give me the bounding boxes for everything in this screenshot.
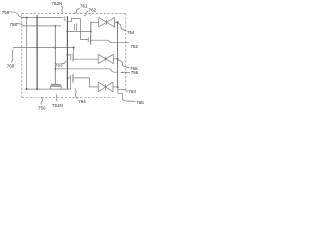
svg-text:759: 759 xyxy=(2,10,10,15)
wire vertical column V2 xyxy=(36,15,38,89)
transistor Q2 channel bar xyxy=(90,36,92,45)
selector cell D3 right triangle xyxy=(106,82,113,92)
transistor Q3 channel bar xyxy=(72,53,74,61)
node dot bitline mid xyxy=(117,58,119,60)
transistor Q4 gate bar xyxy=(70,75,72,82)
selector cell D1 center bar xyxy=(106,20,108,25)
svg-text:758: 758 xyxy=(10,22,18,27)
selector cell D2 center bar xyxy=(105,56,107,61)
svg-text:751N: 751N xyxy=(52,103,63,108)
svg-text:761: 761 xyxy=(80,4,88,9)
wire bit line vertical xyxy=(117,22,119,87)
selector cell D1 right bar xyxy=(114,17,116,27)
wire D1 output xyxy=(115,21,118,23)
selector cell D2 left bar xyxy=(97,54,99,63)
wire bottom row xyxy=(27,88,71,90)
transistor Q2 gate bar xyxy=(87,37,89,42)
svg-text:756: 756 xyxy=(131,70,139,75)
wire D3 output xyxy=(113,86,118,88)
wire row 31.5 xyxy=(67,31,90,33)
svg-text:763: 763 xyxy=(55,62,63,67)
wire row 47.6 xyxy=(13,47,74,49)
wire bus jog xyxy=(67,18,80,21)
selector cell D1 left triangle xyxy=(99,17,107,27)
selector cell D3 center bar xyxy=(105,84,107,90)
selector cell D1 left bar xyxy=(98,17,100,27)
transistor Q753N gate bar xyxy=(64,16,66,21)
wire bus vertical xyxy=(66,16,68,89)
leader 760 xyxy=(11,50,13,63)
leader 751N xyxy=(56,95,58,102)
svg-text:762: 762 xyxy=(89,7,97,12)
svg-text:764: 764 xyxy=(78,99,86,104)
node dot at 47.6 row xyxy=(54,47,56,49)
leader 758 xyxy=(17,24,25,26)
dashed box 760 left edge xyxy=(21,14,23,98)
transistor Q3 gate bar xyxy=(70,54,72,60)
transistor T1b gate bar xyxy=(74,24,76,30)
svg-text:753: 753 xyxy=(128,89,136,94)
leader 755 xyxy=(118,60,129,68)
node dot 756 gate join xyxy=(55,68,57,70)
wire D1 input xyxy=(91,22,99,31)
leader 761 xyxy=(74,9,80,14)
wire 753 stub xyxy=(118,89,124,91)
selector cell D2 right triangle xyxy=(106,54,114,63)
selector cell D3 left triangle xyxy=(98,82,105,92)
node dot bitline top xyxy=(117,21,119,23)
selector cell D2 left triangle xyxy=(98,54,106,63)
leader 759 xyxy=(10,12,24,18)
wire 758 row xyxy=(24,25,62,27)
wire 756 row xyxy=(55,69,117,72)
node dot 758/gate xyxy=(55,25,57,27)
wire 765 exit xyxy=(118,87,122,99)
transistor Q4 channel bar xyxy=(72,74,74,83)
node dot bus row78 xyxy=(66,77,68,79)
transistor Q751N gate bar xyxy=(51,83,61,85)
leader 762 xyxy=(84,12,88,16)
leader 750 xyxy=(41,98,43,105)
selector cell D2 right bar xyxy=(112,54,114,63)
svg-text:750: 750 xyxy=(38,106,46,111)
node dot on wire 759 xyxy=(26,17,28,19)
dashed box 760 bottom edge xyxy=(22,96,116,98)
wire Q4 drain stub xyxy=(67,77,70,79)
wire 759 row xyxy=(23,17,63,19)
selector cell D3 left bar xyxy=(97,82,99,92)
dashed box 760 right edge xyxy=(125,14,127,92)
wire gate lead of Q751N xyxy=(54,26,56,84)
svg-text:760: 760 xyxy=(7,63,15,68)
leader 763 xyxy=(62,62,67,64)
leader 765 xyxy=(122,100,135,102)
transistor Q751N channel bar xyxy=(50,85,61,87)
wire Q3 drain stub xyxy=(67,54,70,56)
leader 753N xyxy=(61,6,63,13)
node dot V2 row47 xyxy=(36,47,38,49)
node dot gate lead Q3 xyxy=(73,47,75,49)
wire Q4 source to D3 xyxy=(73,78,98,87)
wire 752 out xyxy=(91,40,130,43)
wire Q3 source to D2 xyxy=(74,58,99,60)
node dot bitline bottom xyxy=(117,86,119,88)
svg-text:754: 754 xyxy=(127,30,135,35)
arrowhead 756 xyxy=(120,72,123,74)
svg-text:765: 765 xyxy=(136,100,144,105)
selector cell D1 right triangle xyxy=(107,17,115,27)
leader arrow 756 xyxy=(122,71,131,73)
dashed box 760 top edge xyxy=(22,13,126,15)
transistor Q3 gate lead xyxy=(73,48,75,54)
selector cell D3 right bar xyxy=(112,82,114,92)
leader 754 xyxy=(118,24,127,31)
transistor Q4 gate lead xyxy=(70,82,72,90)
leader 753 xyxy=(124,90,128,92)
transistor T1b channel bar xyxy=(76,23,78,31)
svg-text:753N: 753N xyxy=(52,1,63,6)
svg-text:752: 752 xyxy=(131,44,139,49)
node dot bus row31 xyxy=(66,31,68,33)
wire gate feed of Q2 xyxy=(80,18,88,39)
transistor Q2 drain lead xyxy=(90,22,92,36)
node dot bus row55 xyxy=(66,54,68,56)
node dot bottom V2 xyxy=(36,88,38,90)
wire vertical column V1 xyxy=(26,18,28,90)
node dot drain Q2 xyxy=(90,31,92,33)
node dot bottom V1 xyxy=(26,88,28,90)
transistor Q751N source leg xyxy=(50,86,52,89)
leader 764 xyxy=(75,89,78,99)
wire D2 output xyxy=(113,58,117,60)
transistor Q751N drain leg xyxy=(60,86,62,89)
